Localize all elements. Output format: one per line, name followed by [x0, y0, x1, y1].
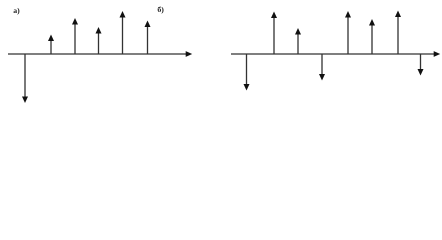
stem n6 left (up) — [145, 21, 151, 55]
stem n8 right (down) — [418, 54, 424, 76]
stem n3 left (up) — [72, 18, 78, 55]
stem n7 right (up) — [395, 11, 401, 55]
stem n5 right (up) — [345, 11, 351, 55]
stem n6 right (up) — [369, 19, 375, 55]
stem n3 right (up) — [295, 28, 301, 55]
stem n4 left (up) — [96, 27, 102, 55]
label a) left plot — [13, 6, 20, 15]
svg-text:б): б) — [157, 5, 164, 14]
axis left plot — [8, 51, 192, 57]
stem n2 left (up) — [48, 35, 54, 55]
stem n1 right (down) — [244, 54, 250, 91]
stem n4 right (down) — [319, 54, 325, 81]
stem n2 right (up) — [271, 12, 277, 55]
stem n5 left (up) — [120, 11, 126, 55]
stem n1 left (down) — [22, 54, 28, 104]
axis right plot — [231, 51, 440, 57]
svg-text:а): а) — [13, 6, 20, 15]
label b) right plot — [157, 5, 164, 14]
